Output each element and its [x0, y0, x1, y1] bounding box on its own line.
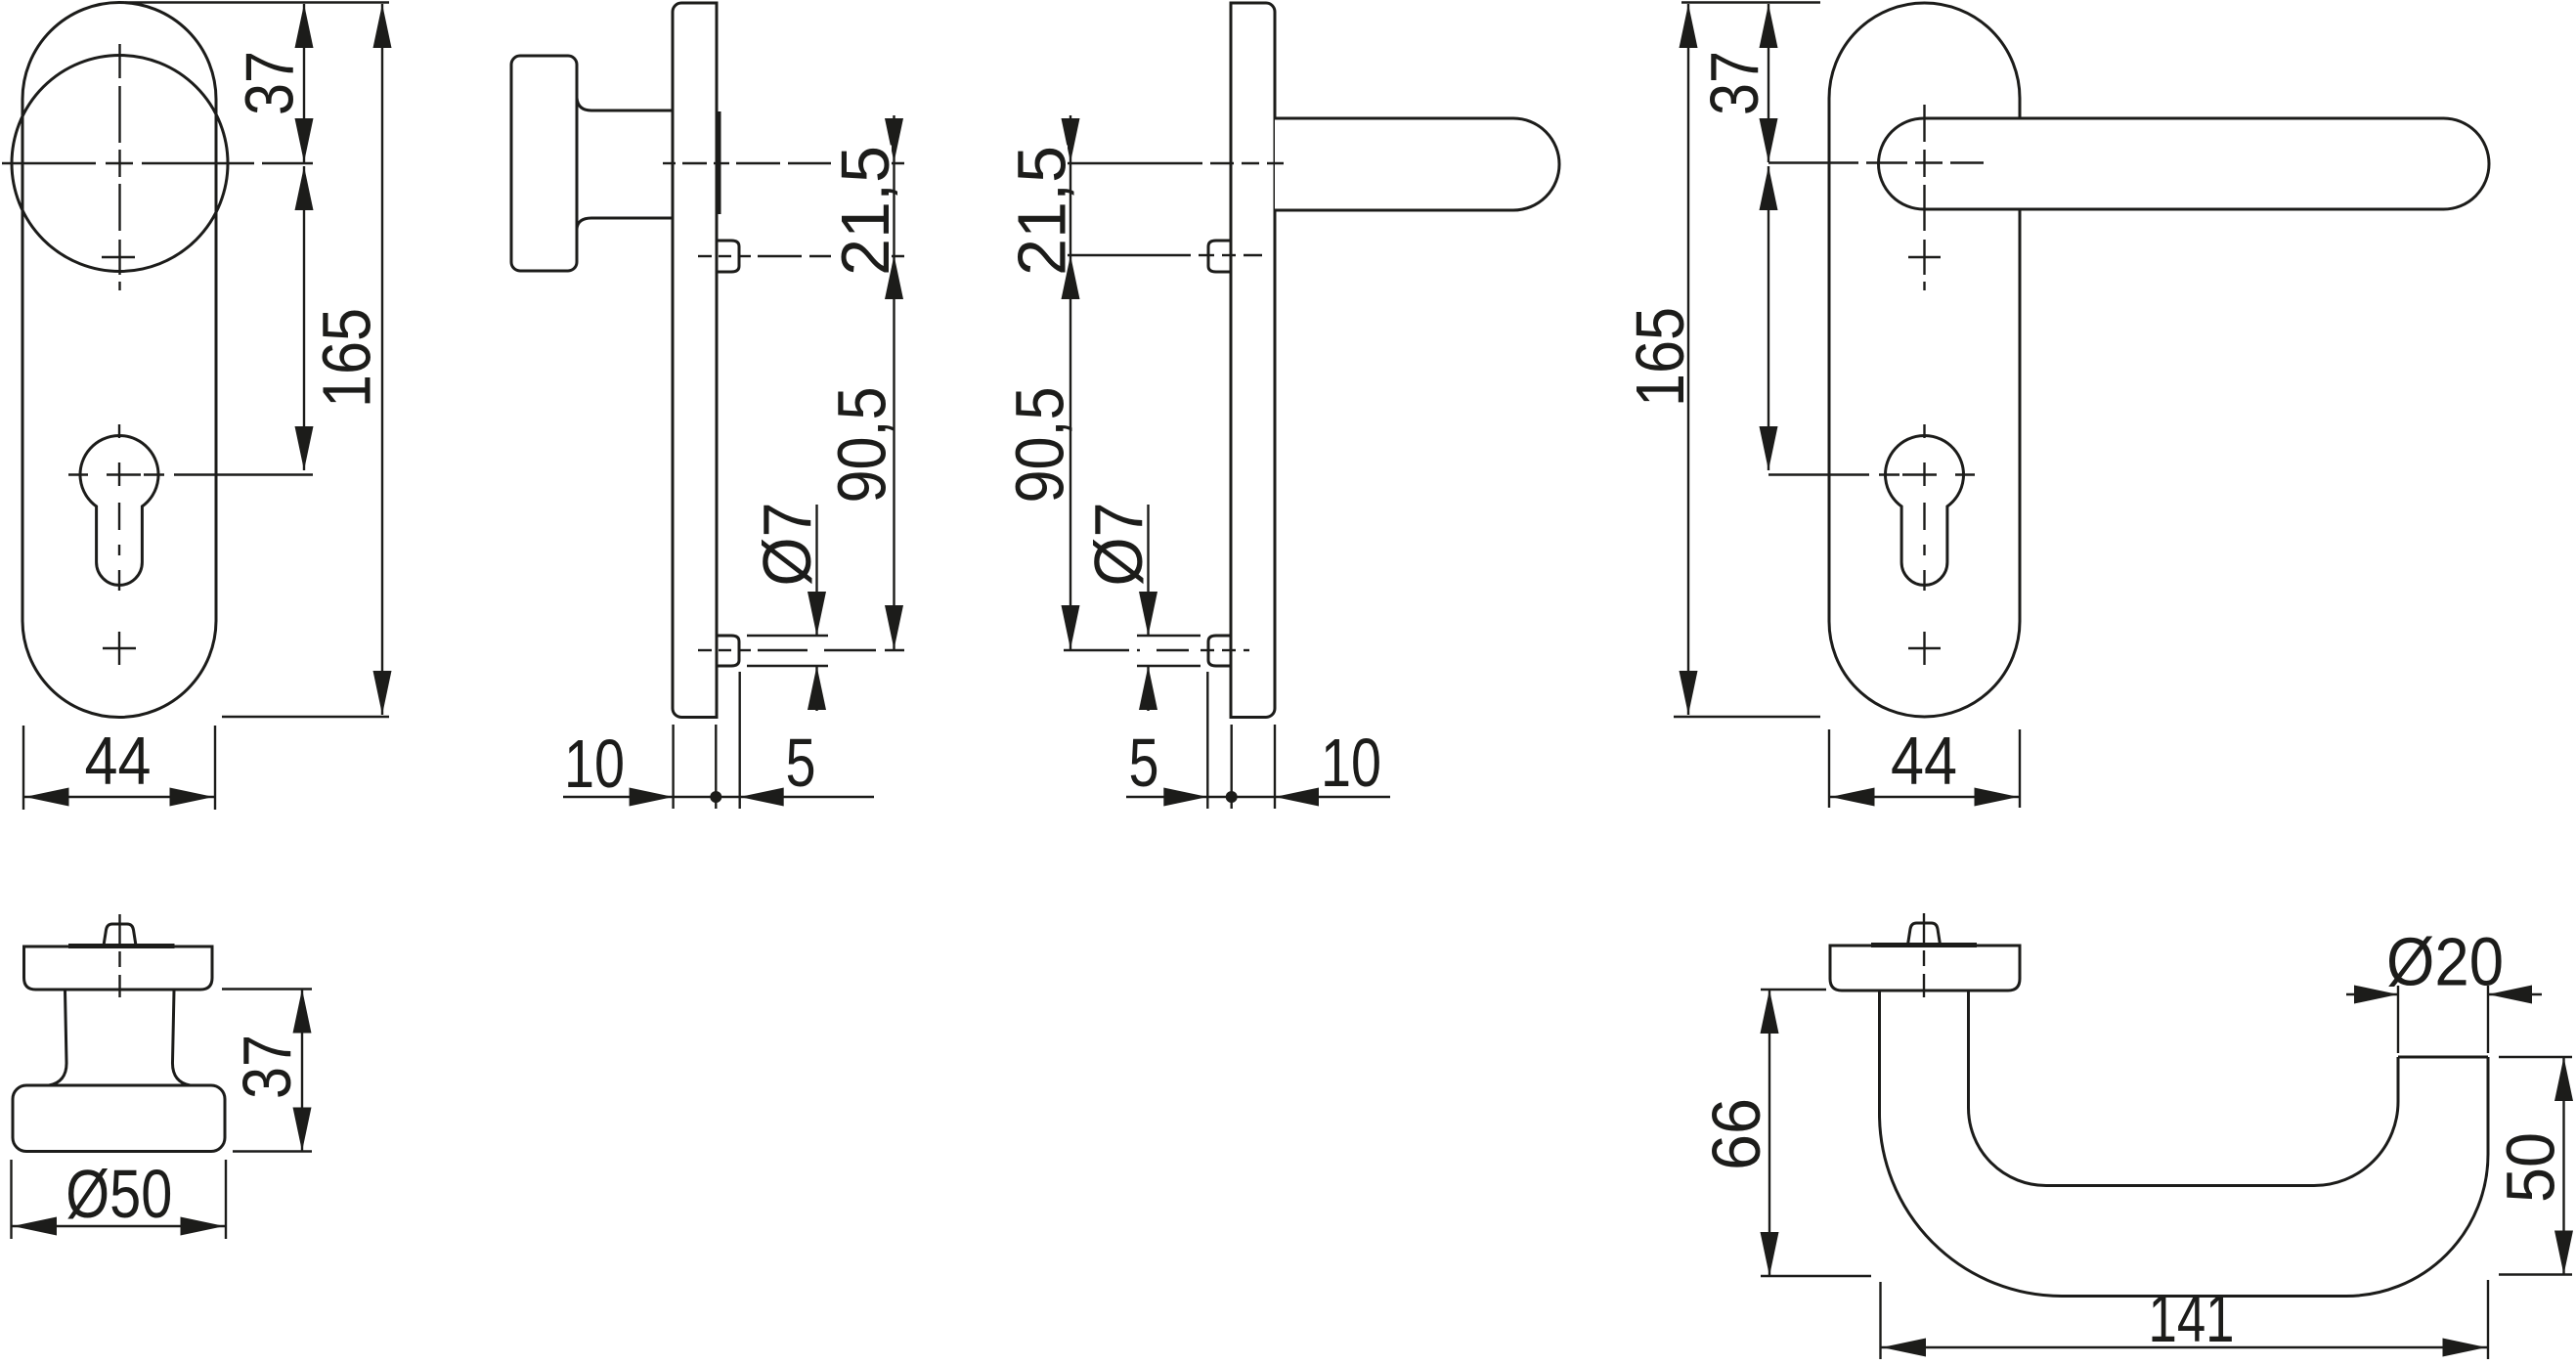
view3 dim 90,5 label halo: [1007, 384, 1068, 506]
view3 bottom extension lines: [1206, 672, 1208, 809]
view2 screw2 centerline: [698, 649, 712, 651]
view3 screw bump 1: [1208, 241, 1231, 272]
svg-text:5: 5: [786, 725, 816, 801]
view4 plate (oval backplate 44x165): [1829, 3, 2020, 717]
svg-text:10: 10: [564, 726, 625, 802]
view4 handle horizontal centerline: [1768, 161, 1858, 163]
view5 dim D50 extension lines: [10, 1160, 12, 1239]
view2 knob neck: [577, 98, 673, 110]
view1 cylinder vertical centerline: [118, 424, 120, 438]
svg-text:Ø20: Ø20: [2386, 924, 2504, 1000]
svg-text:50: 50: [2493, 1132, 2569, 1203]
svg-text:37: 37: [229, 1035, 305, 1099]
view4 handle vertical centerline: [1923, 105, 1925, 142]
view2 screw2 edge extension lines: [747, 635, 828, 637]
view6 dim 50 extension lines: [2499, 1056, 2572, 1058]
view6 lever rose (mounting disc): [1830, 946, 2020, 991]
view6 dim 141 line: [1881, 1346, 2489, 1348]
view4 bottom extension line: [1674, 716, 1820, 718]
view6 handle outer profile: [1880, 990, 2489, 1297]
view5 knob neck: [49, 991, 66, 1085]
svg-text:165: 165: [309, 308, 385, 408]
view5 centerline: [118, 914, 120, 947]
view2 bottom extension lines: [672, 725, 674, 809]
view2 dim 21,5 / 90,5 line: [893, 115, 895, 649]
view6 dim 66 extension lines: [1761, 989, 1826, 991]
svg-text:5: 5: [1129, 725, 1159, 801]
view5 spindle stub: [104, 924, 136, 946]
view5 knob rose (mounting disc): [24, 947, 213, 990]
view4 screw hole 2 cross: [1923, 632, 1925, 665]
view1 cylinder horizontal centerline: [68, 473, 88, 475]
svg-text:21,5: 21,5: [827, 146, 903, 276]
svg-text:37: 37: [232, 51, 308, 115]
view6 grip end face: [2398, 1056, 2488, 1059]
view2 spindle hole (thick edge): [717, 111, 721, 214]
view1 knob vertical centerline: [118, 44, 120, 78]
svg-text:Ø50: Ø50: [65, 1156, 172, 1232]
svg-text:66: 66: [1698, 1098, 1774, 1170]
view2 plate bar (10mm side view): [673, 3, 717, 718]
svg-text:44: 44: [85, 723, 152, 799]
view3 screw2 centerline: [1064, 649, 1129, 651]
view1 top extension line: [125, 1, 389, 3]
view4 cylinder hole (euro profile): [1886, 435, 1964, 585]
view3 dim D7 line: [1147, 505, 1149, 636]
view5 dim D50 line: [12, 1225, 227, 1227]
view1 screw hole 2 cross: [118, 632, 120, 665]
view1 dim 165 line: [381, 4, 383, 715]
view4 lever handle (front view): [1879, 118, 2489, 209]
view5 dim 37 extension lines: [222, 988, 312, 990]
view1 dim 44 line: [23, 796, 215, 798]
view4 dim 44 extension lines: [1828, 729, 1830, 808]
view6 handle inner profile: [1969, 990, 2399, 1186]
view6 spindle stub: [1908, 923, 1941, 945]
svg-text:90,5: 90,5: [824, 387, 900, 504]
view6 dim 141 extension lines: [1879, 1282, 1881, 1359]
view6 dim 66 line: [1768, 990, 1770, 1276]
view4 dim 165 line: [1687, 4, 1689, 715]
view5 knob head (D50): [13, 1085, 225, 1152]
view4 dim 37 line: [1768, 4, 1769, 162]
view1 knob horizontal centerline: [2, 162, 96, 164]
view3 dim 21,5 / 90,5 line: [1070, 115, 1071, 649]
view2 screw1 centerline: [698, 255, 712, 257]
view6 dim 50 line: [2562, 1057, 2564, 1275]
view3 screw bump 2: [1208, 636, 1231, 666]
svg-text:Ø7: Ø7: [1080, 503, 1157, 587]
view6 centerline: [1923, 913, 1925, 946]
view6 dim D20 extension lines: [2397, 986, 2399, 1053]
svg-text:37: 37: [1696, 51, 1772, 115]
view4 cylinder horizontal centerline: [1768, 473, 1869, 475]
view3 screw2 edge extension lines: [1137, 635, 1201, 637]
view4 top extension line: [1681, 1, 1820, 3]
view3 lever grip (side view): [1275, 118, 1559, 210]
view5 dim 37 line: [301, 990, 303, 1152]
view1 screw hole 1 cross: [118, 240, 120, 275]
view2 dim 21,5 label halo: [831, 146, 892, 268]
view6 spindle hole (thick edge): [1871, 943, 1977, 947]
view1 dim 37 line: [303, 4, 305, 162]
svg-text:21,5: 21,5: [1004, 146, 1080, 276]
view3 plate bar (10mm side view): [1231, 3, 1275, 718]
view3 lever centerline: [1061, 162, 1202, 164]
view4 dim 72 line (handle to cylinder): [1768, 166, 1769, 470]
view6 dim D20 line: [2346, 993, 2398, 995]
svg-text:90,5: 90,5: [1002, 387, 1078, 504]
view2 knob head: [511, 56, 577, 271]
view1 plate (oval backplate 44x165): [22, 3, 216, 718]
view2 dim 10 and 5 line: [563, 796, 874, 798]
view2 screw bump 1: [717, 241, 739, 272]
view2 screw bump 2: [717, 636, 739, 666]
svg-text:44: 44: [1891, 723, 1957, 799]
view3 dim 21,5 label halo: [1007, 146, 1068, 268]
view3 dim 5 and 10 line: [1126, 796, 1390, 798]
view1 cylinder hole (euro profile): [80, 435, 158, 585]
view4 cylinder vertical centerline: [1923, 424, 1925, 438]
view5 spindle hole (thick edge): [68, 944, 175, 948]
svg-text:165: 165: [1622, 307, 1698, 407]
view2 dim D7 line: [815, 505, 817, 636]
view1 knob (D50 circle): [12, 56, 228, 272]
svg-text:141: 141: [2149, 1280, 2235, 1356]
view2 knob centerline: [663, 162, 676, 164]
view2 dim 90,5 label halo: [829, 384, 890, 506]
view1 dim 44 extension lines: [22, 726, 24, 810]
svg-text:10: 10: [1321, 725, 1381, 801]
view1 bottom extension line: [222, 716, 389, 718]
view4 screw hole 1 cross: [1923, 240, 1925, 275]
view4 dim 44 line: [1829, 796, 2020, 798]
svg-text:Ø7: Ø7: [749, 503, 825, 587]
view1 dim 72 line (knob to cylinder): [303, 166, 305, 470]
view3 screw1 centerline: [1061, 254, 1191, 256]
